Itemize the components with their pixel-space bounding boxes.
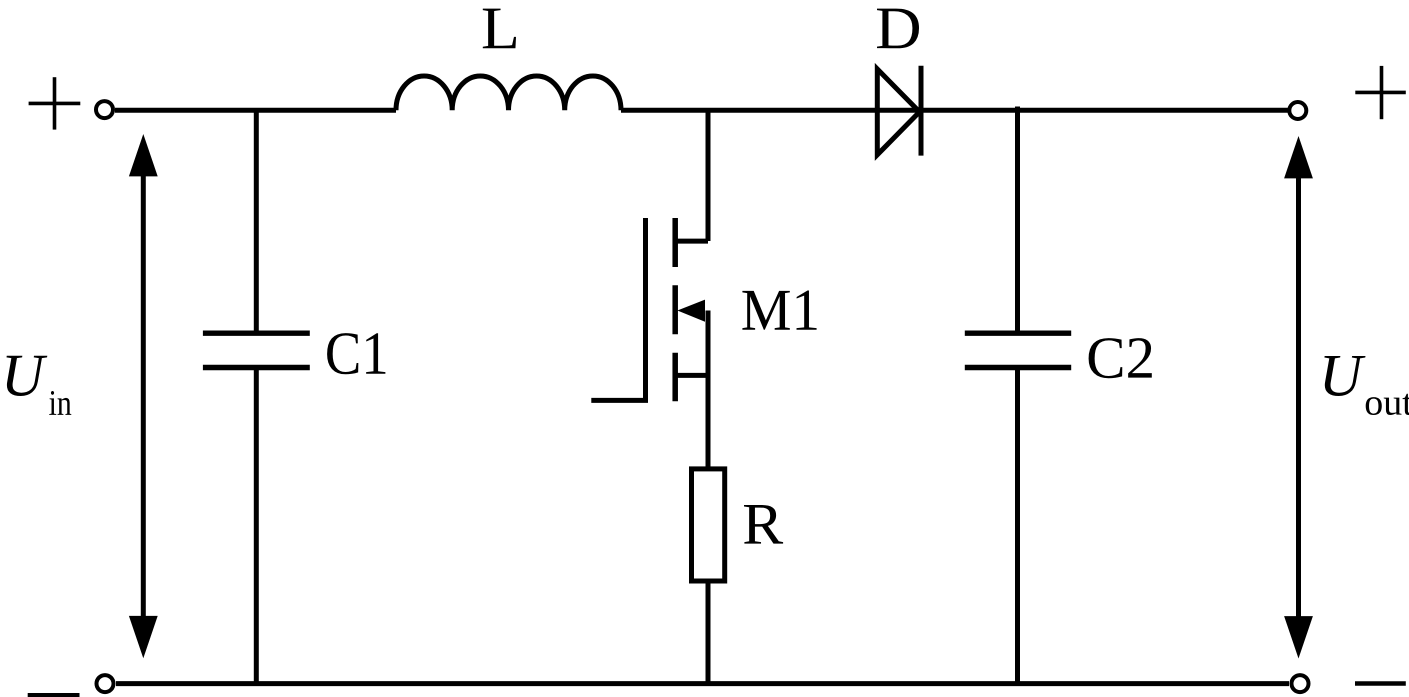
label D [877, 9, 919, 49]
wire C2 top vertical [1015, 107, 1020, 331]
capacitor C1 [203, 333, 310, 367]
terminal minus symbol (output negative) [1355, 681, 1406, 685]
terminal plus symbol (input positive) [29, 77, 81, 129]
negative terminal node bottom-left [97, 675, 114, 692]
label R [744, 505, 783, 544]
voltage arrow U_in (double-headed) [129, 134, 158, 658]
wire C1 bottom vertical [254, 370, 259, 684]
label M1 [742, 291, 816, 330]
negative terminal node bottom-right [1292, 675, 1309, 692]
wire resistor to bottom rail [706, 581, 711, 684]
label in subscript [49, 391, 71, 415]
resistor R [692, 469, 725, 581]
inductor L [396, 76, 621, 110]
label U (input) [7, 356, 48, 396]
wire top rail left segment [115, 108, 396, 113]
label C1 [327, 333, 385, 374]
wire top rail from inductor to diode [621, 108, 877, 113]
voltage arrow U_out (double-headed) [1284, 136, 1313, 659]
capacitor C2 [965, 333, 1071, 367]
output terminal node top-right [1289, 102, 1306, 119]
diode D [877, 66, 921, 156]
wire top rail from diode to output node [877, 108, 1288, 113]
terminal plus symbol (output positive) [1355, 66, 1406, 119]
label out subscript [1366, 394, 1409, 415]
wire MOSFET source/body vertical to resistor [706, 311, 711, 470]
label L [483, 9, 516, 49]
label U (output) [1324, 356, 1365, 396]
wire C2 bottom vertical [1015, 370, 1020, 684]
terminal minus symbol (input negative) [28, 693, 80, 697]
input terminal node top-left [96, 101, 113, 118]
wire MOSFET drain vertical [706, 110, 711, 241]
wire C1 top vertical [254, 110, 259, 331]
label C2 [1089, 338, 1152, 378]
transistor M1 (n-channel MOSFET) [591, 218, 708, 401]
wire bottom rail [116, 681, 1289, 686]
